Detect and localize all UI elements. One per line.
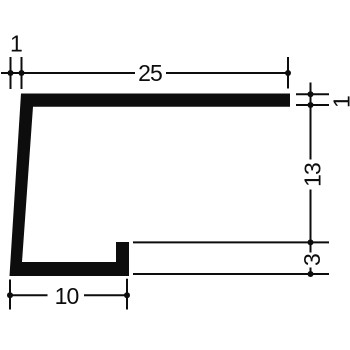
dim 1/25: horizontal dimension line left segment	[1, 72, 135, 74]
dim 10: dot arrowhead left	[7, 292, 13, 298]
svg-text:1: 1	[10, 31, 22, 57]
dim 3: dot arrowhead bottom	[308, 271, 314, 277]
dim chain right: vertical line segment 2	[310, 190, 312, 253]
dim 3: extension line top	[133, 241, 329, 243]
dim 25: horizontal dimension line right segment	[166, 72, 288, 74]
dim 1 left: extension tick a	[10, 57, 12, 89]
profile cross-section (thick black J-channel)	[10, 94, 291, 277]
dim 1 right: extension line bottom	[296, 104, 329, 106]
dim 1 right: extension line top	[296, 93, 329, 95]
dim 1 left: dot arrowhead a	[8, 70, 14, 76]
dim 10: extension tick right	[126, 279, 128, 310]
dim 1 right: dot arrowhead bottom	[308, 102, 314, 108]
dim 25: extension tick right	[287, 57, 289, 89]
dim 10: dimension line left segment	[10, 294, 48, 296]
svg-text:10: 10	[55, 283, 79, 309]
dim 10: extension tick left	[9, 280, 11, 310]
dim chain right: vertical line segment 3	[310, 268, 312, 275]
dim 3: extension line bottom	[133, 273, 329, 275]
dim 10: dimension line right segment	[84, 294, 127, 296]
svg-text:1: 1	[329, 96, 350, 108]
dim 1 right: dot arrowhead top	[308, 91, 314, 97]
svg-text:13: 13	[300, 163, 326, 187]
dim 3: dot arrowhead top	[308, 239, 314, 245]
dim 25: dot arrowhead right	[285, 70, 291, 76]
svg-text:3: 3	[299, 254, 325, 266]
dim 1 left: extension tick b	[21, 57, 23, 89]
svg-text:25: 25	[138, 60, 162, 86]
dim 10: dot arrowhead right	[124, 292, 130, 298]
dim chain right: vertical line segment 1	[310, 83, 312, 160]
dim 1 left: dot arrowhead b	[19, 70, 25, 76]
